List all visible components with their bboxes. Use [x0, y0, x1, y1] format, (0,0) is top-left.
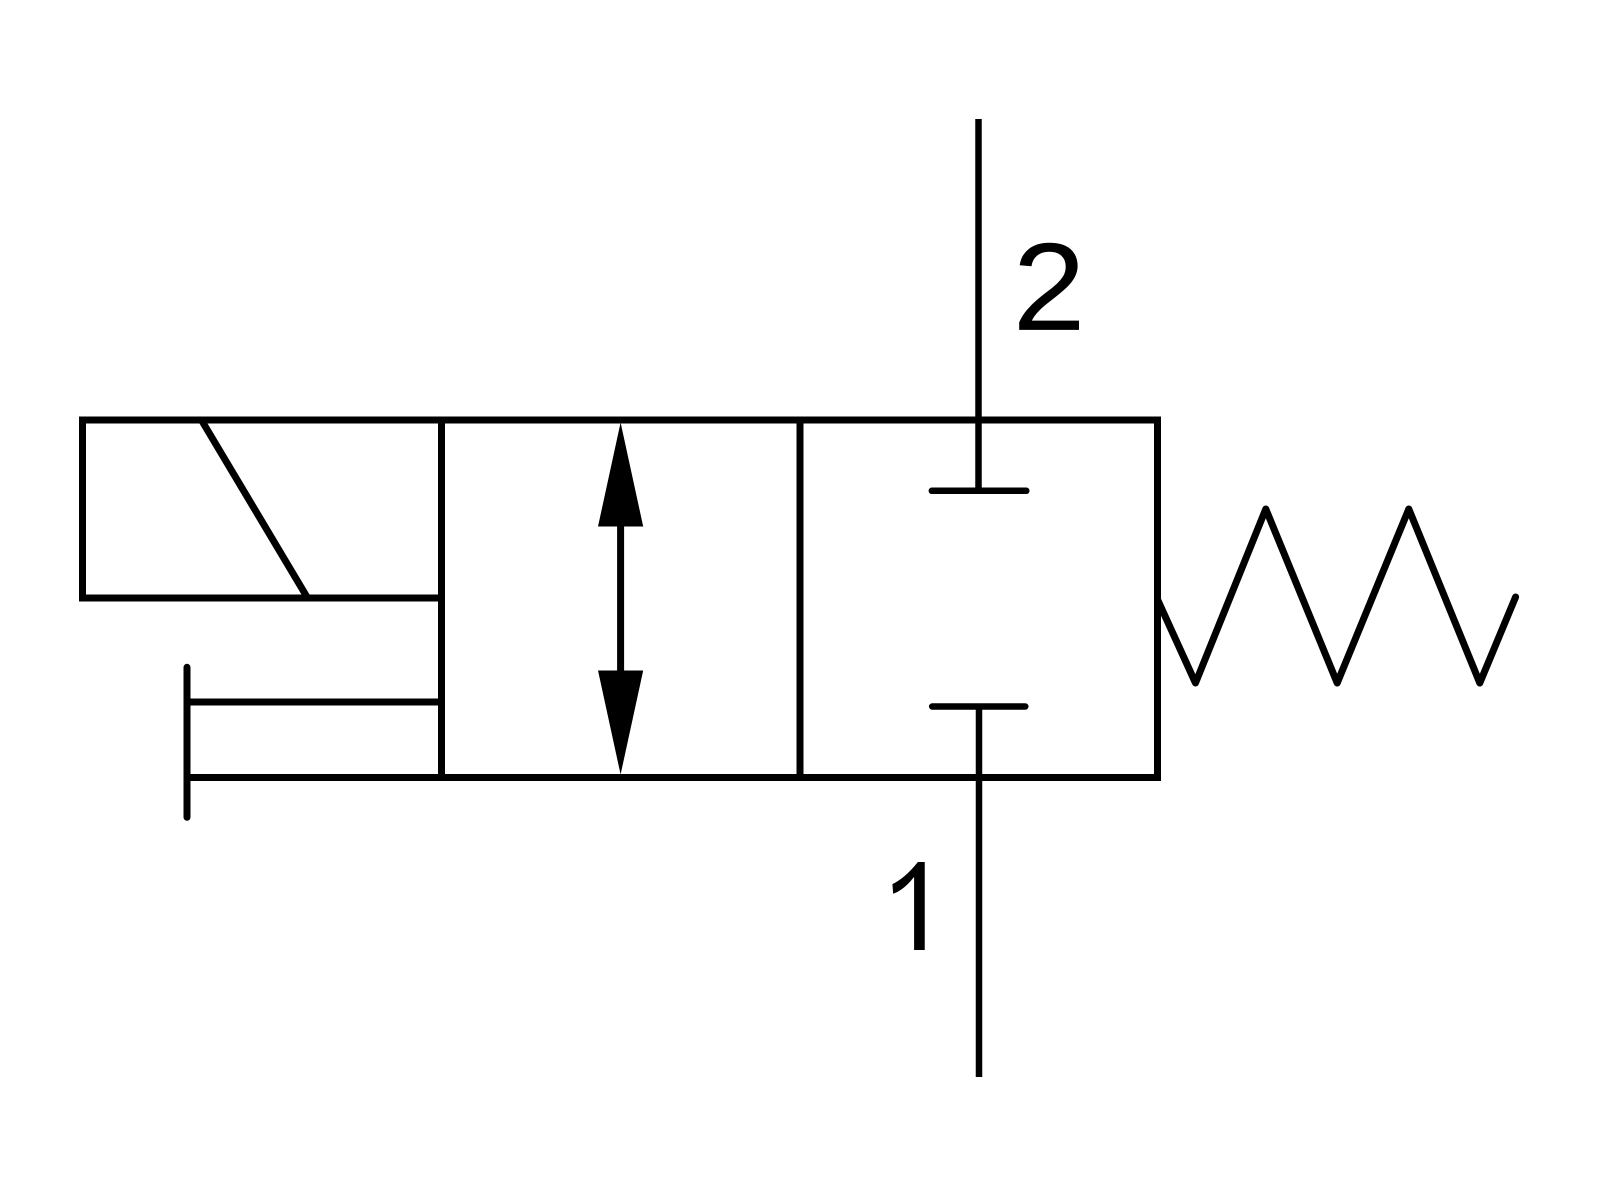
return spring: [1158, 509, 1516, 683]
valve body right position box: [800, 420, 1158, 778]
manual override lower line: [187, 774, 442, 781]
solenoid diagonal stroke: [202, 421, 307, 597]
arrowhead down: [598, 671, 643, 775]
port label 2: [1019, 243, 1079, 330]
double-headed arrow shaft: [617, 515, 624, 682]
manual override upper line: [187, 699, 442, 706]
port 2 line: [975, 119, 982, 490]
arrowhead up: [598, 423, 643, 527]
port 1 blocked seat bar: [932, 703, 1025, 710]
valve body middle position box: [442, 420, 801, 778]
port 1 line: [976, 707, 983, 1078]
solenoid coil box: [83, 420, 442, 598]
port 2 blocked seat bar: [932, 488, 1027, 495]
port label 1: [892, 862, 924, 950]
manual override end bar: [184, 667, 191, 817]
